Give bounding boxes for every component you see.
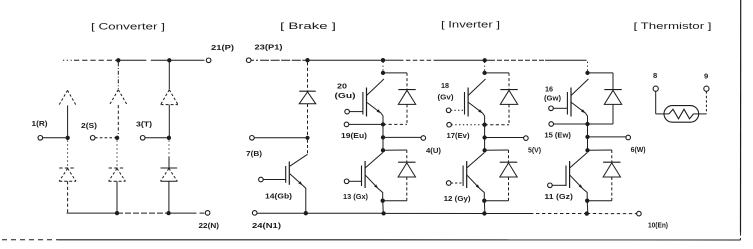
terminal 21(P) [206, 58, 211, 63]
svg-text:(Gu): (Gu) [335, 91, 357, 100]
svg-text:15 (Ew): 15 (Ew) [544, 131, 571, 140]
terminal 10(En) [637, 211, 642, 216]
wire: W output node to terminal [588, 136, 626, 138]
wire: U trunk emitter node to output node [382, 124, 384, 137]
junction: leg1 mid node [66, 136, 70, 140]
wire: leg1 node to lower diode cathode [67, 140, 69, 166]
svg-text:(Gv): (Gv) [438, 93, 454, 102]
wire: V trunk output node to lower collector [484, 138, 486, 151]
wire: W trunk output node to lower collector [587, 137, 589, 150]
wire: N rail dashed to W [530, 213, 587, 215]
wire: thermistor left lead [656, 91, 669, 114]
wire: V lower collector to lower diode [485, 149, 509, 151]
wire: U-leg upper diode cathode lead [406, 73, 408, 89]
wire: N1 rail brake section [257, 212, 384, 214]
IGBT upper U-phase (gate 20(Gu)) [345, 79, 384, 124]
junction: N rail / leg3 [166, 211, 170, 215]
thermistor body [664, 106, 699, 123]
terminal 2(S) [90, 136, 95, 141]
wire: 1(R) to leg1 node [43, 137, 68, 139]
wire: thermistor right lead [694, 91, 707, 114]
svg-text:16: 16 [545, 85, 553, 94]
junction: U lower collector node [381, 148, 385, 152]
diode converter upper leg3 [161, 90, 178, 105]
terminal 7(B) [250, 136, 255, 141]
wire: U output node to terminal [383, 136, 421, 138]
terminal 4(U) [421, 136, 426, 141]
svg-text:[ Brake ]: [ Brake ] [280, 21, 336, 31]
wire: V-leg collector node to upper diode [485, 72, 509, 74]
diode freewheel lower W [603, 161, 620, 163]
wire: N rail V toward W [484, 212, 530, 214]
junction: N rail / V emitter [482, 211, 486, 215]
diode converter lower leg2 [109, 168, 126, 181]
wire: U-leg upper diode anode lead [406, 104, 408, 124]
wire: 7(B) to brake node [254, 137, 307, 139]
junction: W lower emitter node [585, 199, 589, 203]
wire: U lower diode anode to emitter node [383, 200, 407, 202]
junction: P rail / V leg [483, 58, 487, 62]
diode converter lower leg1 [59, 168, 76, 181]
wire: V-leg upper diode anode lead [508, 104, 510, 124]
wire: converter P rail (dashed part) [74, 59, 118, 61]
svg-text:[ Thermistor ]: [ Thermistor ] [634, 21, 712, 31]
svg-text:11 (Gz): 11 (Gz) [544, 192, 573, 201]
svg-text:9: 9 [704, 72, 708, 81]
junction: brake B node [305, 136, 309, 140]
wire: leg2 upper diode anode to 2(S) node [117, 105, 119, 134]
svg-text:4(U): 4(U) [426, 146, 441, 155]
wire: P rail V to W (solid) [485, 59, 490, 61]
junction: U output node [381, 135, 385, 139]
wire: leg3 node to lower diode cathode [168, 140, 170, 167]
junction: U-leg upper collector node [381, 71, 385, 75]
wire: brake diode anode lead [307, 104, 309, 136]
junction: N rail / W emitter [585, 211, 589, 215]
diode converter upper leg1 [59, 90, 76, 105]
wire: U lower collector to lower diode [383, 149, 407, 151]
wire: W lower diode anode lead [611, 177, 613, 201]
wire: W-leg upper diode anode lead [612, 104, 614, 124]
terminal aux emitter 17(Ev) [447, 122, 452, 127]
wire: W trunk emitter node to output node [587, 124, 589, 137]
junction: V lower collector node [482, 148, 486, 152]
wire: aux emitter terminal to V node [451, 124, 484, 126]
svg-text:8: 8 [653, 71, 657, 80]
wire: W-leg collector node to upper diode [588, 72, 614, 74]
svg-text:20: 20 [337, 82, 347, 91]
svg-text:5(V): 5(V) [528, 146, 541, 155]
svg-text:3(T): 3(T) [136, 120, 153, 129]
wire: converter N rail (right solid) [169, 212, 205, 214]
junction: P rail / converter leg 2 [116, 58, 120, 62]
IGBT upper W-phase (gate 16(Gw)) [549, 79, 589, 124]
wire: W-leg aux emitter line to diode [588, 123, 614, 125]
terminal 1(R) [38, 136, 43, 141]
wire: brake diode cathode lead [307, 62, 309, 91]
junction: V emitter/aux node [482, 123, 486, 127]
terminal 9 [704, 86, 709, 91]
page border right [739, 0, 741, 240]
wire: leg2 node to lower diode cathode [116, 140, 118, 166]
wire: 3(T) to leg3 node [145, 137, 169, 139]
wire: P1 rail brake to U-leg [308, 59, 384, 61]
svg-text:(Gw): (Gw) [544, 94, 561, 103]
terminal 3(T) [140, 136, 145, 141]
diode converter lower leg3 [161, 168, 178, 181]
terminal 5(V) [524, 136, 529, 141]
IGBT lower W-phase (gate 11 (Gz)) [548, 153, 588, 201]
svg-text:23(P1): 23(P1) [255, 43, 284, 52]
wire: converter N rail (left solid) [67, 212, 117, 214]
junction: W-leg upper collector node [585, 71, 589, 75]
svg-text:[ Inverter ]: [ Inverter ] [441, 20, 500, 30]
junction: N rail / U emitter [381, 211, 385, 215]
IGBT lower V-phase (gate 12 (Gy)) [446, 153, 484, 201]
wire: U-leg P rail to collector node (faint) [382, 62, 384, 71]
svg-text:[ Converter ]: [ Converter ] [91, 22, 165, 32]
wire: V lower diode anode to emitter node [485, 200, 509, 202]
svg-text:22(N): 22(N) [199, 221, 220, 230]
wire: W lower diode anode to emitter node [588, 200, 612, 202]
junction: P rail / converter leg 3 [167, 58, 171, 62]
junction: V output node [482, 135, 486, 139]
junction: U emitter/aux node [381, 122, 385, 126]
wire: U emitter node to N rail [382, 201, 385, 214]
wire: P rail U to V [383, 59, 485, 61]
wire: 2(S) to leg2 node [95, 137, 117, 139]
page border bottom [2, 239, 741, 241]
IGBT brake chopper (gate 14(Gb)) [259, 154, 308, 213]
terminal aux emitter 19(Eu) [344, 122, 349, 127]
diode converter upper leg2 [110, 90, 127, 105]
wire: leg1 upper diode anode to 1(R) node [67, 105, 69, 135]
svg-text:12 (Gy): 12 (Gy) [444, 194, 471, 203]
wire: converter P rail (right part) [169, 59, 204, 61]
wire: U-leg aux emitter line to diode [383, 123, 407, 125]
wire: V lower diode cathode lead [508, 150, 510, 162]
terminal 24(N1) [252, 211, 257, 216]
junction: W output node [585, 135, 589, 139]
wire: V output node to terminal [485, 137, 524, 139]
wire: W lower diode cathode lead [611, 150, 613, 162]
wire: leg3 lower diode anode to N rail [168, 181, 170, 213]
junction: V lower emitter node [482, 199, 486, 203]
junction: leg2 mid node [115, 136, 119, 140]
wire: V-leg aux emitter line to diode [485, 124, 509, 126]
terminal 23(P1) [246, 58, 251, 63]
svg-text:13 (Gx): 13 (Gx) [343, 192, 368, 201]
wire: P rail end at W leg [545, 59, 587, 61]
junction: P1 rail / brake diode [305, 58, 309, 62]
svg-text:6(W): 6(W) [631, 145, 646, 154]
wire: V-leg upper diode cathode lead [508, 73, 510, 89]
junction: N rail / leg2 [115, 211, 119, 215]
wire: U lower diode cathode lead [406, 150, 408, 162]
wire: W emitter node to N rail [586, 201, 589, 214]
diode freewheel upper U [398, 89, 415, 91]
wire: converter N rail (dashed mid) [117, 212, 169, 214]
svg-text:19(Eu): 19(Eu) [341, 131, 368, 140]
wire: V trunk emitter node to output node [484, 125, 486, 138]
svg-text:24(N1): 24(N1) [252, 221, 282, 230]
wire: P rail V to W (dashed) [490, 59, 545, 61]
wire: W-leg P rail to collector node (faint) [587, 62, 589, 71]
wire: leg3 P rail to diode cathode [168, 62, 170, 89]
wire: brake IGBT collector lead [307, 140, 309, 155]
svg-text:18: 18 [441, 81, 449, 90]
wire: leg3 upper diode anode to 3(T) node [168, 105, 170, 136]
wire: V emitter node to N rail [483, 201, 486, 214]
svg-text:1(R): 1(R) [32, 119, 49, 128]
wire: P1 rail dashed to brake node [251, 59, 308, 61]
diode freewheel upper V [500, 89, 517, 91]
svg-text:10(En): 10(En) [648, 221, 668, 230]
IGBT lower U-phase (gate 13 (Gx)) [344, 153, 382, 201]
wire: N rail dashed to 10(En) [587, 213, 637, 215]
wire: leg2 P rail to diode cathode [117, 62, 119, 89]
terminal 22(N) [205, 211, 210, 216]
wire: leg1 lower diode anode to N rail [67, 181, 69, 213]
wire: W-leg upper diode cathode lead [612, 73, 614, 89]
diode brake (B to P1) [299, 90, 316, 92]
terminal aux emitter 15 (Ew) [549, 122, 554, 127]
diode freewheel lower V [500, 161, 517, 163]
wire: leg2 lower diode anode to N rail [116, 181, 118, 213]
junction: U lower emitter node [381, 199, 385, 203]
junction: P rail / U leg [381, 58, 385, 62]
junction: leg3 mid node [167, 136, 171, 140]
wire: aux emitter terminal to U node [349, 123, 383, 125]
diode freewheel upper W [604, 89, 621, 91]
junction: N1 rail / brake emitter [304, 211, 308, 215]
IGBT upper V-phase (gate 18(Gv)) [446, 79, 485, 125]
wire: U-leg collector node to upper diode [383, 72, 407, 74]
wire: N rail U to V [384, 212, 485, 214]
wire: U lower diode anode lead [406, 177, 408, 201]
svg-text:14(Gb): 14(Gb) [265, 192, 293, 201]
wire: U trunk output node to lower collector [382, 137, 384, 150]
junction: W emitter/aux node [585, 122, 589, 126]
diode freewheel lower U [398, 161, 415, 163]
junction: W lower collector node [585, 148, 589, 152]
terminal 6(W) [626, 135, 631, 140]
terminal 8 [653, 86, 658, 91]
wire: converter P rail (solid part) [118, 59, 169, 61]
junction: V-leg upper collector node [482, 71, 486, 75]
wire: W lower collector to lower diode [588, 149, 612, 151]
wire: converter P rail (dotted start) [63, 59, 74, 61]
svg-text:17(Ev): 17(Ev) [447, 131, 470, 140]
wire: V lower diode anode lead [508, 177, 510, 201]
svg-text:7(B): 7(B) [246, 149, 263, 158]
wire: aux emitter terminal to W node [554, 123, 588, 125]
svg-text:21(P): 21(P) [211, 43, 235, 52]
wire: V-leg P rail to collector node (faint) [484, 62, 486, 71]
svg-text:2(S): 2(S) [81, 121, 98, 130]
